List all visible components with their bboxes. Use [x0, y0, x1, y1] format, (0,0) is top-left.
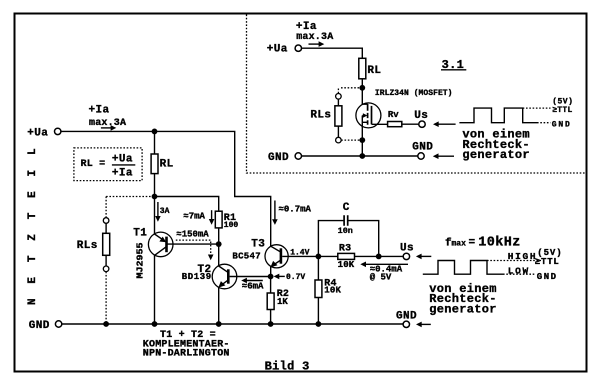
terminal Us inset — [414, 110, 428, 128]
terminal +Ua inset — [267, 44, 302, 56]
arrow into GND inset right — [433, 153, 454, 159]
capacitor C 10n — [318, 202, 378, 257]
node rail T1 — [152, 321, 158, 327]
svg-text:10n: 10n — [338, 226, 353, 236]
node R3 right / C right — [376, 254, 382, 260]
wire +Ua to RL inset — [302, 48, 363, 104]
terminal +Ua — [27, 127, 61, 139]
arrow into GND main right — [416, 322, 431, 328]
svg-text:GND: GND — [29, 320, 50, 332]
node T3 base / R3 / R4 / C — [316, 254, 322, 260]
svg-text:0.7V: 0.7V — [286, 273, 305, 282]
svg-text:@ 5V: @ 5V — [370, 272, 392, 282]
transistor T2 BD139 — [182, 244, 237, 324]
resistor RLs (dotted alternative) — [77, 197, 152, 325]
svg-text:Rv: Rv — [388, 110, 399, 120]
arrow into Us inset — [433, 121, 456, 127]
svg-text:1K: 1K — [277, 297, 288, 307]
arrow 0.4mA left — [360, 262, 408, 283]
svg-text:≈6mA: ≈6mA — [242, 281, 264, 291]
svg-text:+Ua: +Ua — [112, 154, 133, 166]
svg-text:max.3A: max.3A — [296, 32, 333, 43]
resistor RLs inset (dotted alternative) — [310, 88, 360, 143]
svg-text:10K: 10K — [338, 260, 355, 270]
arrow 150mA dotted — [176, 230, 214, 261]
node rail R4 — [316, 321, 322, 327]
wire RL leads — [154, 131, 156, 196]
resistor Rv — [388, 110, 419, 127]
waveform generator inset — [459, 97, 573, 129]
waveform generator main — [423, 248, 563, 282]
svg-text:IRLZ34N (MOSFET): IRLZ34N (MOSFET) — [375, 89, 453, 98]
terminal GND inset right — [412, 142, 433, 160]
svg-text:=: = — [469, 237, 476, 249]
formula box RL = +Ua/+Ia — [74, 148, 142, 181]
svg-text:≥TTL: ≥TTL — [552, 106, 572, 115]
node RL top — [152, 129, 158, 135]
svg-text:GND: GND — [552, 121, 572, 130]
transistor T1 MJ2955 — [133, 197, 173, 325]
svg-text:BD139: BD139 — [182, 272, 212, 282]
node rail RLs — [103, 321, 109, 327]
mosfet IRLZ34N — [356, 103, 388, 140]
wire node to R1 top — [155, 197, 219, 245]
label fmax = 10kHz — [445, 236, 521, 251]
inset 3.1 dotted box — [247, 15, 587, 174]
arrow 0.7mA down — [272, 201, 311, 225]
svg-text:+Ua: +Ua — [27, 127, 48, 139]
svg-text:generator: generator — [429, 302, 497, 316]
node mosfet source / RLs bottom — [359, 137, 365, 143]
arrow 7mA down — [183, 210, 214, 225]
svg-text:+Ia: +Ia — [296, 21, 317, 33]
arrow 6mA left — [241, 278, 264, 292]
label von einem Rechteck-generator main — [429, 282, 497, 316]
svg-text:generator: generator — [462, 148, 530, 162]
wire T2 base — [230, 276, 271, 278]
wire T1 base — [168, 243, 219, 245]
svg-text:10K: 10K — [324, 285, 341, 295]
arrow into Us main — [416, 254, 431, 260]
node T1 base / R1 bottom / T2 collector — [216, 241, 222, 247]
svg-text:C: C — [343, 202, 350, 214]
svg-text:≈7mA: ≈7mA — [183, 212, 205, 222]
resistor R1 100 — [215, 211, 238, 230]
svg-text:Bild 3: Bild 3 — [265, 359, 310, 373]
svg-text:+Ia: +Ia — [89, 104, 110, 116]
terminal GND main right — [396, 311, 417, 328]
svg-text:+Ua: +Ua — [267, 44, 288, 56]
terminal GND inset left — [268, 152, 301, 164]
svg-text:(5V): (5V) — [552, 97, 573, 106]
svg-text:3A: 3A — [160, 207, 170, 216]
node GND rail inset — [359, 153, 365, 159]
svg-text:100: 100 — [224, 221, 239, 230]
svg-text:+Ia: +Ia — [112, 168, 133, 180]
svg-text:≈150mA: ≈150mA — [176, 230, 209, 240]
svg-text:RLs: RLs — [77, 240, 98, 252]
svg-text:GND: GND — [537, 272, 558, 282]
svg-text:LOW: LOW — [508, 265, 530, 276]
resistor RL inset — [359, 58, 382, 79]
wire source to GND rail inset — [361, 140, 363, 156]
arrow 3A down — [155, 202, 170, 222]
svg-text:RL: RL — [367, 65, 381, 77]
svg-text:≥TTL: ≥TTL — [535, 257, 560, 267]
node T2 base / R2 top — [268, 274, 274, 280]
svg-text:GND: GND — [412, 142, 433, 154]
node RL bottom / RLs junction — [152, 194, 158, 200]
wire T3 base to node — [282, 255, 318, 257]
label T1+T2 darlington — [143, 330, 230, 360]
arrow Ia right — [101, 125, 116, 131]
node rail R2 — [268, 321, 274, 327]
node RL bottom inset — [359, 85, 365, 91]
svg-text:≈0.7mA: ≈0.7mA — [279, 205, 312, 215]
svg-text:R3: R3 — [339, 243, 351, 254]
label +Ia max.3A inset — [296, 21, 334, 43]
label 3.1 — [441, 58, 466, 72]
resistor R2 1K — [267, 277, 289, 325]
svg-text:T1: T1 — [133, 228, 147, 240]
node rail T2 — [216, 321, 222, 327]
resistor RL — [151, 154, 174, 174]
svg-text:NPN-DARLINGTON: NPN-DARLINGTON — [143, 348, 230, 359]
svg-text:T3: T3 — [251, 239, 265, 251]
svg-text:MJ2955: MJ2955 — [136, 243, 146, 279]
label +Ia max.3A — [89, 104, 127, 129]
svg-text:10kHz: 10kHz — [478, 236, 521, 251]
svg-text:BC547: BC547 — [232, 251, 261, 261]
resistor R3 10K — [318, 243, 403, 270]
svg-text:HIGH: HIGH — [508, 251, 538, 262]
resistor R4 10K — [315, 256, 342, 324]
arrow 0.7V left — [274, 273, 306, 282]
terminal GND main left — [29, 320, 62, 332]
wire +Ua rail top — [61, 131, 271, 246]
wire GND rail — [62, 323, 403, 325]
transistor T3 BC547 — [232, 239, 288, 277]
svg-text:GND: GND — [268, 152, 289, 164]
label von einem Rechteck-generator inset — [462, 128, 530, 162]
arrow Ia right inset — [309, 41, 325, 47]
svg-text:RLs: RLs — [310, 110, 331, 122]
svg-text:RL: RL — [160, 158, 174, 170]
svg-text:Us: Us — [414, 110, 428, 122]
svg-text:max.3A: max.3A — [89, 118, 126, 129]
svg-text:max: max — [452, 239, 467, 248]
svg-text:RL =: RL = — [81, 159, 106, 170]
terminal Us main — [400, 243, 414, 260]
wire GND rail inset — [302, 155, 418, 157]
